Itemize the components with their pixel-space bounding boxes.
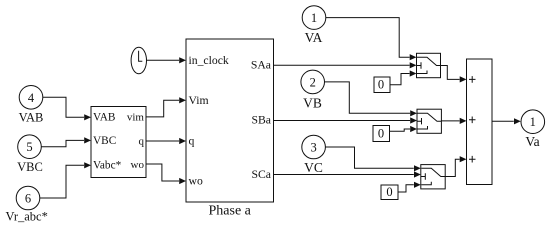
wire constant2 to switch2 bottom (390, 126, 418, 132)
svg-text:VBC: VBC (93, 135, 116, 147)
svg-text:0: 0 (378, 78, 384, 92)
svg-text:VBC: VBC (17, 160, 43, 174)
subsystem abc (VAB/VBC/Vabc*) (91, 107, 146, 178)
svg-text:q: q (139, 136, 145, 148)
svg-text:Vim: Vim (189, 94, 209, 107)
svg-text:Phase a: Phase a (209, 204, 252, 219)
svg-text:SCa: SCa (252, 168, 272, 181)
svg-text:VC: VC (304, 160, 323, 175)
constant 0 #3 (381, 185, 398, 200)
wire SAa to switch1 control (274, 62, 417, 68)
switch SW1 (417, 53, 441, 77)
wire inport5 to VBC (41, 137, 91, 146)
wire switch1 to sum input1 (441, 66, 467, 83)
svg-text:0: 0 (378, 127, 384, 141)
wire switch3 to sum input3 (445, 156, 466, 176)
svg-text:1: 1 (530, 115, 536, 129)
svg-text:6: 6 (25, 192, 31, 206)
wire sum to outport Va (492, 118, 521, 124)
wire inport6 to Vabc* (40, 162, 91, 198)
wire SCa to switch3 control (274, 171, 421, 177)
svg-text:Va: Va (525, 134, 539, 149)
wire wo to wo (146, 164, 186, 184)
svg-text:SAa: SAa (251, 58, 272, 71)
svg-text:VAB: VAB (19, 111, 44, 125)
svg-text:Vabc*: Vabc* (93, 159, 122, 171)
wire vim to Vim (146, 97, 186, 117)
wire inport4 to VAB (43, 97, 91, 120)
inport 1 VA (302, 6, 326, 45)
wire clock to in_clock (147, 57, 187, 63)
wire q to q (146, 138, 186, 144)
wire constant1 to switch1 bottom (390, 70, 417, 84)
switch SW3 (421, 165, 445, 189)
svg-text:vim: vim (127, 111, 145, 123)
svg-text:SBa: SBa (252, 113, 272, 126)
inport 3 VC (302, 135, 326, 175)
constant 0 #2 (373, 126, 390, 142)
svg-text:2: 2 (310, 75, 316, 89)
outport 1 Va (521, 110, 545, 149)
subsystem Phase a (186, 39, 274, 219)
svg-text:wo: wo (131, 159, 145, 171)
svg-text:wo: wo (189, 175, 203, 188)
svg-text:5: 5 (26, 140, 32, 154)
svg-text:q: q (189, 135, 195, 148)
wire SBa to switch2 control (274, 117, 418, 123)
svg-text:in_clock: in_clock (189, 54, 229, 67)
svg-text:Vr_abc*: Vr_abc* (6, 210, 48, 224)
svg-text:VAB: VAB (93, 112, 115, 124)
inport 6 (6, 186, 48, 223)
wire VC to switch3 top (325, 147, 420, 171)
svg-text:1: 1 (311, 11, 317, 25)
wire switch2 to sum input2 (441, 118, 466, 124)
switch SW2 (417, 109, 441, 133)
wire VB to switch2 top (325, 82, 418, 117)
svg-text:4: 4 (28, 91, 35, 105)
sum block (467, 59, 493, 185)
svg-text:VA: VA (305, 30, 323, 45)
inport 4 (19, 86, 44, 125)
inport 5 (17, 135, 43, 174)
inport 2 VB (301, 70, 325, 111)
wire constant3 to switch3 bottom (398, 182, 421, 192)
wire VA to switch1 top (326, 18, 417, 61)
svg-text:0: 0 (386, 185, 392, 199)
clock block (131, 47, 146, 73)
svg-text:3: 3 (310, 141, 316, 155)
constant 0 #1 (374, 77, 390, 93)
svg-text:VB: VB (303, 96, 322, 111)
